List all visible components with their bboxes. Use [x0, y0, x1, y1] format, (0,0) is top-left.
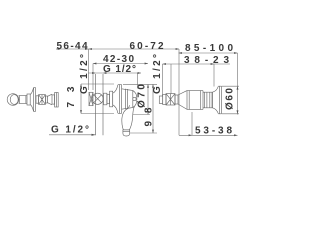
- arrowheads G1/2 pipe: [92, 72, 141, 74]
- middle valve stem ring 3: [110, 91, 113, 107]
- middle valve body circle hatched: [92, 93, 103, 104]
- arrowheads 42-30: [93, 63, 148, 65]
- dimension line 53-38: [179, 134, 238, 136]
- arrowheads top line: [56, 48, 59, 50]
- datum leader line bottom G 1/2: [49, 134, 96, 136]
- right valve pipe stub: [159, 96, 162, 103]
- dimension line 42-30: [93, 63, 148, 65]
- svg-text:G 1/2°: G 1/2°: [51, 124, 89, 135]
- dimension Ø60 ticks: [222, 86, 239, 114]
- right valve body cylinder: [187, 91, 203, 110]
- svg-text:73: 73: [66, 86, 77, 107]
- right valve waist rings: [203, 91, 213, 110]
- middle valve left port box hatched: [89, 92, 93, 105]
- middle valve lever handle end cap: [123, 130, 130, 136]
- arrowheads Ø60: [237, 86, 239, 114]
- svg-text:85-100: 85-100: [185, 43, 233, 54]
- arrowheads 85-100: [179, 52, 238, 54]
- right valve ring after joint: [175, 95, 178, 104]
- extension line x88.5: [88, 49, 90, 90]
- right valve taper cone: [178, 91, 187, 110]
- dimension 73 vertical with extensions: [81, 84, 114, 114]
- svg-text:38-23: 38-23: [184, 55, 229, 66]
- arrowheads Ø70: [147, 84, 149, 114]
- left valve ring after flange: [36, 96, 39, 103]
- svg-text:G 1/2°: G 1/2°: [103, 64, 136, 75]
- dimension line 85-100: [179, 52, 238, 54]
- left valve ribbed end knob: [52, 93, 58, 108]
- middle valve stem ring 2: [107, 94, 110, 103]
- dimension line 38-23: [163, 63, 231, 65]
- extension line x162.5: [162, 64, 164, 96]
- middle valve lever handle neck: [128, 105, 134, 108]
- left valve step ring: [27, 94, 30, 105]
- left valve flange bell: [30, 88, 35, 112]
- right valve threaded joint box hatched: [166, 94, 175, 105]
- svg-text:53-38: 53-38: [195, 125, 232, 136]
- svg-text:56-44: 56-44: [57, 41, 88, 52]
- middle valve stem ring 1: [104, 93, 107, 105]
- middle valve flange bell: [113, 85, 122, 114]
- extension line x171: [170, 64, 172, 94]
- left valve small ring: [45, 96, 47, 103]
- middle valve lever handle grip: [122, 108, 134, 130]
- left valve knob circle: [7, 94, 19, 106]
- dimension line top 56-44 / 60-72: [56, 48, 179, 50]
- svg-text:Ø70: Ø70: [137, 84, 148, 108]
- arrowhead bottom G1/2 leader: [92, 134, 96, 136]
- left valve neck cylinder: [19, 96, 27, 104]
- dimension 98 vertical line: [130, 84, 157, 133]
- extension line x214: [213, 64, 215, 87]
- extension line x192 for 53-38: [191, 112, 193, 135]
- extension line x237.5 from 85-100 down: [237, 53, 239, 115]
- svg-text:60-72: 60-72: [130, 41, 164, 52]
- extension line x93: [92, 64, 94, 91]
- arrowheads 38-23: [163, 63, 215, 65]
- dimension Ø70 vertical line: [123, 84, 157, 114]
- left valve taper cone: [47, 94, 52, 105]
- svg-text:G 1/2°: G 1/2°: [152, 54, 163, 94]
- left valve threaded joint box with cross hatch: [39, 95, 46, 105]
- dimension line pipe thread G 1/2: [88, 72, 141, 74]
- right valve flange bell: [213, 86, 222, 114]
- extension line x179 long: [178, 49, 180, 135]
- middle valve cap dome: [133, 91, 137, 108]
- right valve ring before joint: [163, 95, 166, 105]
- arrowheads 73: [80, 84, 82, 114]
- svg-text:Ø60: Ø60: [225, 88, 236, 110]
- middle valve supply pipe: [96, 74, 104, 135]
- extension line x137.5 handle pivot: [137, 73, 139, 89]
- middle valve bonnet: [122, 89, 134, 109]
- arrowheads 98: [152, 84, 154, 133]
- arrowheads 53-38: [189, 134, 238, 136]
